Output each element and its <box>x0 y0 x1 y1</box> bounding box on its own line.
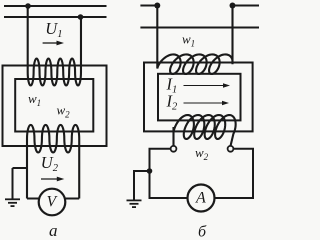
winding w1 primary coil with leads (circuit b) <box>157 6 232 75</box>
arrow I2 direction <box>184 102 224 104</box>
wire bus line L2 (circuit a) <box>4 16 107 18</box>
winding w2 secondary coil with stems (circuit b) <box>174 115 236 146</box>
wire bus line L1 right segment (circuit b) <box>233 5 260 7</box>
svg-text:V: V <box>47 194 58 211</box>
arrow I1 direction <box>184 85 225 87</box>
wire left terminal to ammeter <box>150 149 188 198</box>
terminal circle left (circuit b) <box>171 146 177 152</box>
svg-text:б: б <box>198 224 207 240</box>
node junction dot right (circuit b) <box>230 3 236 9</box>
ammeter A1 circle <box>188 185 215 212</box>
voltmeter V1 circle <box>39 189 66 216</box>
transformer core (circuit b) inner rectangle <box>158 74 241 121</box>
node junction dot on L1 <box>25 3 31 9</box>
wire bus line L2 (circuit b) <box>140 27 259 29</box>
node junction dot left (circuit b) <box>154 3 160 9</box>
arrow U2 direction <box>41 178 58 180</box>
winding w2 secondary coil with leads (circuit a) <box>27 125 79 199</box>
transformer core (circuit a) outer rectangle <box>3 66 107 147</box>
wire bus line L1 (circuit a) <box>4 5 107 7</box>
wire ground branch (circuit b) <box>134 171 150 200</box>
wire to voltmeter right <box>65 198 79 200</box>
wire to voltmeter left <box>27 198 39 200</box>
ground symbol (circuit b) <box>127 199 142 201</box>
wire ground branch (circuit a) <box>13 167 28 169</box>
transformer core (circuit b) outer rectangle <box>144 63 253 132</box>
node junction dot ground branch (circuit b) <box>147 168 153 174</box>
svg-text:а: а <box>49 221 58 239</box>
wire right terminal to ammeter <box>215 149 254 198</box>
transformer core (circuit a) inner rectangle <box>15 79 93 132</box>
terminal circle right (circuit b) <box>228 146 234 152</box>
winding w1 primary coil with leads (circuit a) <box>28 6 81 86</box>
node junction dot on L2 <box>78 14 84 20</box>
svg-text:A: A <box>195 190 206 207</box>
ground symbol (circuit a) <box>12 168 14 199</box>
arrow U1 direction <box>43 42 58 44</box>
wire bus line L1 left segment (circuit b) <box>140 5 157 7</box>
